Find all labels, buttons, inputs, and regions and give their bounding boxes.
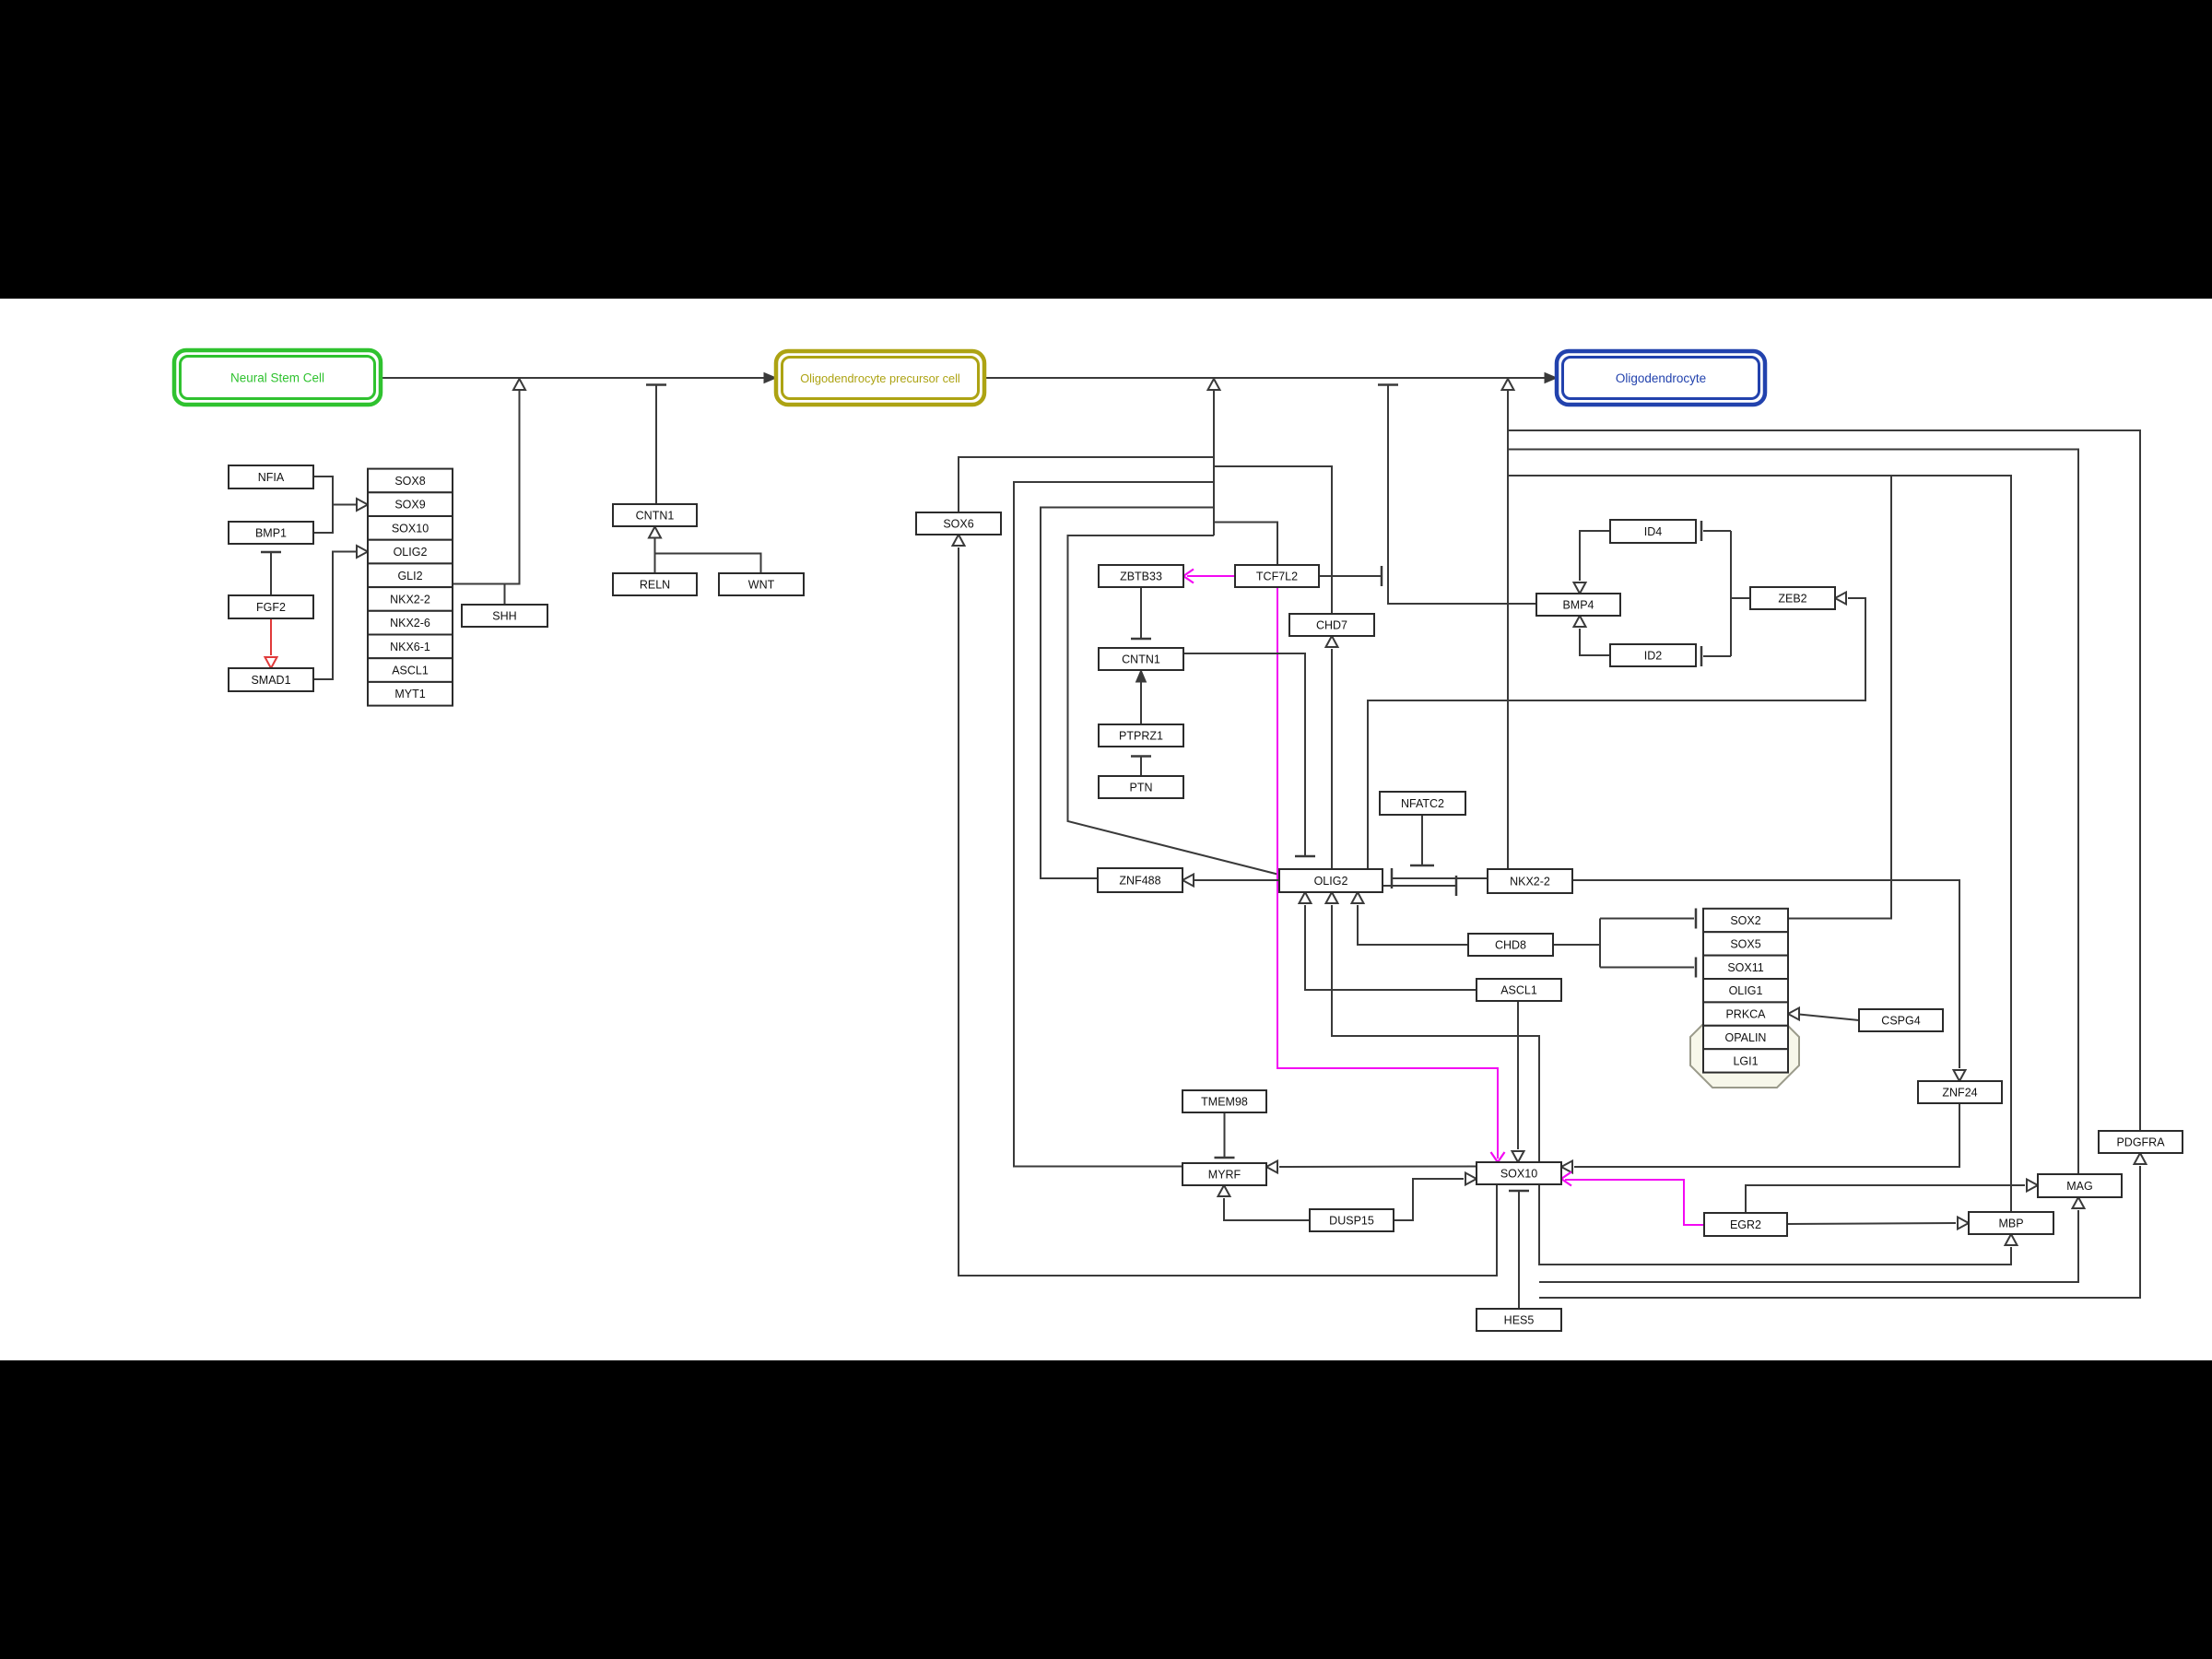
SMAD1 to OLIG2 row [313,552,368,680]
NKX2-2 inhibits OLIG2 [1392,877,1488,879]
PTPRZ1 activates CNTN1 [1140,673,1142,724]
TCF7L2 inhibition of BMP4 edge [1319,575,1382,577]
complex octagon around OPALIN/LGI1 [1690,1015,1799,1088]
SHH/GLI2 stimulation of NSC-OPC conversion [453,391,520,584]
ID2 activates BMP4 [1580,629,1610,655]
cell node Oligodendrocyte precursor cell [776,351,984,405]
svg-text:Neural Stem Cell: Neural Stem Cell [230,371,324,385]
svg-text:MYT1: MYT1 [394,688,425,700]
gene node CHD8 [1468,934,1553,956]
svg-text:OPALIN: OPALIN [1725,1031,1767,1044]
OLIG2 inhibits NKX2-2 [1382,885,1456,887]
svg-text:EGR2: EGR2 [1730,1218,1761,1231]
gene node PTN [1099,776,1183,798]
BMP4 inhibition of OPC-OL conversion [1388,385,1536,605]
svg-text:ASCL1: ASCL1 [1500,984,1537,997]
svg-text:MAG: MAG [2066,1180,2092,1193]
NKX2-2 activates ZNF24 [1572,880,1959,1068]
bus x1636: stimulation of OPC-OL conversion (NKX2-2,MBP,MAG,PDGFRA,SOX2) [1507,391,1509,869]
CHD8 inhibits SOX2 and SOX11 [1553,944,1600,946]
gene node MBP [1969,1212,2053,1234]
gene node ZNF24 [1918,1081,2002,1103]
SHH to GLI2 connector stub [504,584,506,606]
gene node FGF2 [229,595,313,618]
TMEM98 inhibits MYRF [1224,1112,1226,1158]
conversion arrow NSC to OPC [381,377,771,379]
svg-text:SOX5: SOX5 [1730,937,1760,950]
svg-text:CNTN1: CNTN1 [1122,653,1160,666]
gene node CNTN1 [1099,648,1183,670]
OLIG2 activates ZEB2 [1368,598,1865,869]
SOX6 branch [959,457,1214,512]
svg-text:HES5: HES5 [1504,1314,1535,1327]
svg-text:TMEM98: TMEM98 [1201,1096,1248,1109]
gene node MYRF [1182,1163,1266,1185]
conversion arrow OPC to OL [984,377,1551,379]
svg-text:SOX6: SOX6 [943,518,973,531]
TCF7L2 to SOX10 (magenta) [1277,587,1498,1159]
ASCL1 activates SOX10 [1517,1001,1519,1149]
gene node ASCL1 [1477,979,1561,1001]
svg-text:SOX2: SOX2 [1730,914,1760,927]
svg-text:NKX2-6: NKX2-6 [390,617,430,629]
gene node CSPG4 [1859,1009,1943,1031]
svg-text:PRKCA: PRKCA [1725,1008,1766,1021]
CNTN1 inhibition of NSC-OPC conversion [655,385,657,505]
gene node MAG [2038,1174,2122,1197]
svg-text:SOX8: SOX8 [394,475,425,488]
svg-text:ZNF488: ZNF488 [1119,875,1160,888]
TCF7L2 represses ZBTB33 (magenta) [1187,575,1235,577]
svg-text:TCF7L2: TCF7L2 [1256,571,1298,583]
SOX2 branch [1788,476,1891,919]
gene node ID4 [1610,520,1696,543]
svg-text:NKX2-2: NKX2-2 [1510,876,1550,888]
cell node Oligodendrocyte [1557,351,1765,405]
svg-text:LGI1: LGI1 [1733,1054,1758,1067]
svg-text:ZNF24: ZNF24 [1942,1087,1977,1100]
gene node BMP1 [229,522,313,544]
TCF7L2 branch [1214,523,1277,566]
svg-text:Oligodendrocyte precursor cell: Oligodendrocyte precursor cell [800,371,960,385]
svg-text:NKX2-2: NKX2-2 [390,594,430,606]
gene node TMEM98 [1182,1090,1266,1112]
SOX10 activates MYRF [1279,1166,1477,1169]
svg-text:SOX11: SOX11 [1727,961,1763,974]
EGR2 activates SOX10 (magenta) [1565,1180,1704,1225]
svg-text:BMP4: BMP4 [1562,599,1594,612]
svg-text:SOX10: SOX10 [1500,1168,1537,1181]
RELN and WNT to CNTN1 [654,539,656,574]
svg-text:SMAD1: SMAD1 [251,674,290,687]
gene node RELN [613,573,697,595]
svg-text:RELN: RELN [640,579,670,592]
gene stack stack2 [1703,909,1788,1073]
MAG branch [1508,450,2078,1175]
NFATC2 inhibits OLIG2/NKX2-2 edge [1421,815,1423,865]
svg-text:Oligodendrocyte: Oligodendrocyte [1616,371,1706,385]
svg-text:GLI2: GLI2 [397,570,422,582]
EGR2 activates MBP [1787,1223,1956,1224]
gene node ZBTB33 [1099,565,1183,587]
gene node TCF7L2 [1235,565,1319,587]
PTN inhibits PTPRZ1 [1140,757,1142,777]
svg-text:OLIG2: OLIG2 [394,546,428,559]
CHD7 branch [1214,466,1332,614]
gene node OLIG2 [1279,869,1382,892]
NFIA and BMP1 to SOX9 row [313,477,333,505]
svg-text:SOX10: SOX10 [392,522,429,535]
gene node PDGFRA [2099,1131,2183,1153]
gene node ZNF488 [1098,868,1182,892]
svg-text:FGF2: FGF2 [256,601,286,614]
svg-text:SHH: SHH [492,610,516,623]
svg-text:MBP: MBP [1998,1218,2023,1230]
FGF2 activates SMAD1 (red) [270,618,272,655]
ZEB2 inhibits ID2 [1703,655,1731,657]
gene node SMAD1 [229,668,313,691]
gene node DUSP15 [1310,1209,1394,1231]
svg-text:PDGFRA: PDGFRA [2116,1136,2165,1149]
gene node WNT [719,573,804,595]
gene node CHD7 [1289,614,1374,636]
gene node SOX6 [916,512,1001,535]
CSPG4 activates PRKCA [1799,1015,1859,1021]
svg-text:PTN: PTN [1130,782,1153,794]
svg-text:OLIG2: OLIG2 [1314,875,1348,888]
gene node CNTN1 [613,504,697,526]
gene stack stack1 [368,469,453,706]
bus x1317: stimulation of OPC-OL conversion (SOX6,MYRF,ZNF488,OLIG2,TCF7L2,CHD7) [1213,391,1215,535]
svg-text:CSPG4: CSPG4 [1881,1015,1920,1028]
svg-text:NKX6-1: NKX6-1 [390,641,430,653]
OLIG2 branch (diagonal) [1068,535,1280,875]
gene node NFATC2 [1380,792,1465,815]
SOX10 activates OLIG2 [1332,905,1539,1162]
PDGFRA branch [1508,430,2140,1131]
gene node SOX10 [1477,1162,1561,1184]
svg-text:CNTN1: CNTN1 [636,510,675,523]
SOX10 activates MBP [1539,1184,2011,1265]
ZNF488 branch [1041,508,1214,879]
svg-text:SOX9: SOX9 [394,499,425,512]
svg-text:OLIG1: OLIG1 [1729,984,1763,997]
svg-text:ASCL1: ASCL1 [392,665,429,677]
gene node NKX2-2 [1488,869,1572,893]
gene node SHH [462,605,547,627]
svg-text:MYRF: MYRF [1208,1169,1241,1182]
gene node NFIA [229,465,313,488]
ZBTB33 inhibits CNTN1 [1140,587,1142,639]
cell node Neural Stem Cell [174,350,381,405]
ID4 activates BMP4 [1580,531,1610,581]
svg-text:WNT: WNT [748,579,775,592]
gene node HES5 [1477,1309,1561,1331]
MYRF branch [1014,482,1214,1167]
svg-text:ZEB2: ZEB2 [1778,593,1806,606]
FGF2 inhibits BMP1 [270,552,272,595]
svg-text:NFIA: NFIA [258,471,285,484]
svg-text:ZBTB33: ZBTB33 [1120,571,1162,583]
OLIG2 activates ZNF488 [1194,879,1279,881]
ZNF24 activates SOX10 [1574,1103,1959,1167]
svg-text:PTPRZ1: PTPRZ1 [1119,730,1163,743]
SOX10 activates SOX6 (long loop) [959,547,1497,1276]
SOX10 activates MAG [1539,1210,2078,1282]
svg-text:DUSP15: DUSP15 [1329,1215,1374,1228]
svg-text:CHD8: CHD8 [1495,939,1526,952]
svg-text:CHD7: CHD7 [1316,619,1347,632]
svg-text:ID2: ID2 [1644,650,1663,663]
svg-text:ID4: ID4 [1644,525,1663,538]
gene node ID2 [1610,644,1696,666]
ASCL1 activates OLIG2 [1305,905,1477,990]
SOX10 activates PDGFRA [1539,1166,2140,1298]
CHD8 activates OLIG2 [1358,905,1468,945]
EGR2 activates MAG [1746,1185,2025,1213]
DUSP15 activates SOX10 [1394,1179,1464,1220]
OLIG2 activates CHD7 [1331,649,1333,869]
HES5 inhibits SOX10 [1518,1191,1520,1309]
CNTN1 inhibits OLIG2 [1183,653,1305,856]
svg-text:NFATC2: NFATC2 [1401,797,1444,810]
gene node EGR2 [1704,1213,1787,1236]
ZEB2 inhibits ID4 [1731,597,1750,599]
gene node BMP4 [1536,594,1620,616]
DUSP15 activates MYRF [1224,1198,1310,1220]
gene node PTPRZ1 [1099,724,1183,747]
svg-text:BMP1: BMP1 [255,527,287,540]
gene node ZEB2 [1750,587,1835,609]
MBP branch [1508,476,2011,1212]
